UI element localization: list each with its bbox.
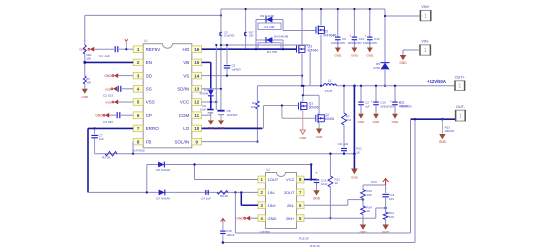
svg-text:1K: 1K (367, 209, 371, 213)
svg-text:GND: GND (334, 54, 342, 58)
svg-text:2IN-: 2IN- (287, 203, 295, 208)
svg-text:10K: 10K (389, 215, 394, 219)
svg-text:10K: 10K (250, 105, 255, 109)
svg-text:IRF640: IRF640 (308, 48, 319, 52)
svg-text:1K: 1K (356, 150, 360, 154)
svg-text:1uF: 1uF (99, 137, 104, 141)
svg-text:REF5V: REF5V (146, 47, 161, 52)
svg-text:U1: U1 (144, 39, 148, 43)
svg-text:U2: U2 (266, 168, 270, 172)
svg-text:OUT-: OUT- (456, 105, 466, 109)
svg-text:ERRO: ERRO (146, 126, 160, 131)
svg-text:R12: R12 (399, 101, 405, 105)
svg-text:FB: FB (146, 139, 152, 144)
svg-text:10K: 10K (249, 34, 254, 38)
svg-text:R4 75R: R4 75R (267, 50, 278, 54)
svg-text:104: 104 (389, 197, 394, 201)
svg-text:C13: C13 (374, 37, 380, 41)
svg-text:10R/2W: 10R/2W (399, 104, 409, 108)
svg-text:GND: GND (392, 120, 400, 124)
svg-text:C4 1uF: C4 1uF (201, 196, 211, 200)
svg-text:VCC: VCC (286, 177, 295, 182)
svg-text:EN: EN (146, 60, 152, 65)
svg-text:GND: GND (358, 120, 366, 124)
svg-text:1000uF/35V: 1000uF/35V (363, 41, 377, 45)
svg-text:C5: C5 (232, 64, 236, 68)
svg-text:R13: R13 (445, 125, 451, 129)
svg-text:10K: 10K (86, 81, 91, 85)
svg-text:10K: 10K (367, 193, 372, 197)
svg-text:C9: C9 (342, 37, 346, 41)
svg-text:14: 14 (194, 73, 200, 78)
svg-text:VSS: VSS (146, 100, 155, 105)
svg-text:D6 N4148: D6 N4148 (260, 14, 274, 18)
svg-text:D4 IN4148: D4 IN4148 (274, 34, 289, 38)
svg-text:10uF: 10uF (321, 182, 328, 186)
svg-text:GND: GND (313, 196, 321, 200)
svg-text:1K2: 1K2 (346, 118, 352, 122)
svg-text:1: 1 (459, 114, 462, 120)
svg-text:VSS: VSS (105, 87, 111, 91)
svg-text:50N06: 50N06 (325, 117, 335, 121)
svg-text:SOL/IN: SOL/IN (175, 139, 190, 144)
svg-text:C8: C8 (227, 109, 231, 113)
svg-text:10: 10 (194, 126, 200, 131)
svg-text:0.1uF/63: 0.1uF/63 (224, 34, 235, 38)
svg-text:D2 N4148: D2 N4148 (156, 168, 170, 172)
svg-text:VSS: VSS (105, 101, 111, 105)
svg-text:VCC: VCC (371, 180, 378, 184)
svg-text:LO: LO (183, 126, 190, 131)
svg-text:10uF/50V: 10uF/50V (227, 114, 238, 117)
svg-text:C11 102: C11 102 (338, 142, 349, 146)
svg-text:C1 .1uF: C1 .1uF (99, 54, 110, 58)
svg-text:GND: GND (81, 95, 89, 99)
svg-text:C6: C6 (202, 104, 206, 108)
svg-text:10K: 10K (86, 57, 91, 61)
svg-text:L1: L1 (328, 79, 332, 83)
svg-text:GND: GND (95, 114, 103, 118)
svg-text:+: + (349, 34, 351, 38)
svg-text:CP: CP (146, 113, 152, 118)
svg-text:10R/2W: 10R/2W (445, 129, 455, 133)
svg-text:KA7500: KA7500 (134, 149, 145, 153)
svg-text:1000uF/35V: 1000uF/35V (331, 41, 345, 45)
svg-text:GND: GND (268, 216, 277, 221)
svg-text:C10: C10 (380, 101, 386, 105)
svg-text:GND: GND (104, 74, 112, 78)
svg-text:1IN+: 1IN+ (268, 203, 277, 208)
svg-text:R1 10R: R1 10R (264, 25, 275, 29)
svg-text:GND: GND (439, 140, 447, 144)
svg-text:OUT+: OUT+ (455, 76, 466, 80)
svg-text:1: 1 (424, 14, 427, 20)
svg-text:VB: VB (183, 60, 189, 65)
svg-text:COM: COM (179, 113, 190, 118)
svg-text:1uF50V: 1uF50V (232, 67, 242, 71)
svg-text:R3 2K: R3 2K (102, 156, 112, 160)
svg-text:15: 15 (194, 60, 200, 65)
svg-text:R15 2K: R15 2K (299, 236, 309, 240)
svg-text:IRF9640: IRF9640 (324, 33, 337, 37)
svg-text:GND: GND (236, 217, 244, 221)
svg-text:1uF: 1uF (365, 104, 370, 108)
svg-text:GND: GND (351, 175, 359, 179)
svg-text:1: 1 (424, 48, 427, 54)
svg-text:1OUT: 1OUT (268, 177, 279, 182)
svg-text:R16 2K: R16 2K (310, 244, 320, 248)
svg-text:1K: 1K (335, 181, 339, 185)
svg-text:12: 12 (194, 100, 200, 105)
svg-text:16: 16 (194, 47, 200, 52)
svg-text:+: + (390, 99, 392, 103)
svg-text:GND: GND (316, 135, 324, 139)
svg-text:+: + (371, 99, 373, 103)
svg-text:VCC: VCC (180, 100, 190, 105)
svg-text:GND: GND (373, 120, 381, 124)
svg-text:GND: GND (207, 126, 215, 130)
svg-text:C2: C2 (365, 101, 369, 105)
svg-text:GND: GND (351, 54, 359, 58)
svg-text:13: 13 (194, 87, 200, 92)
svg-text:2IN+: 2IN+ (286, 216, 295, 221)
svg-text:A760: A760 (373, 66, 380, 70)
svg-text:HO: HO (183, 47, 190, 52)
svg-text:C2 103: C2 103 (103, 93, 113, 97)
svg-text:D7 N4148: D7 N4148 (156, 196, 170, 200)
svg-text:1000uF/35V: 1000uF/35V (348, 41, 362, 45)
svg-text:GND: GND (399, 61, 407, 65)
svg-text:VS: VS (183, 73, 189, 78)
svg-text:50N06: 50N06 (309, 105, 319, 109)
svg-text:SD/IN: SD/IN (177, 87, 189, 92)
svg-text:VIN+: VIN+ (421, 5, 430, 9)
svg-text:100uF: 100uF (226, 233, 234, 237)
svg-text:10uF: 10uF (200, 107, 206, 111)
svg-text:+: + (365, 34, 367, 38)
svg-text:IN4148: IN4148 (200, 92, 209, 96)
svg-text:1IN-: 1IN- (268, 190, 276, 195)
svg-text:GND: GND (366, 54, 374, 58)
svg-text:C3 332: C3 332 (103, 120, 113, 124)
svg-text:GND: GND (299, 136, 307, 140)
svg-text:GND: GND (218, 126, 226, 130)
svg-text:SD: SD (146, 73, 153, 78)
svg-text:+12V/50A: +12V/50A (427, 79, 446, 84)
svg-text:47uH: 47uH (325, 89, 332, 93)
svg-text:11: 11 (194, 113, 199, 118)
svg-text:1: 1 (458, 84, 461, 90)
svg-text:2OUT: 2OUT (284, 190, 295, 195)
svg-text:VIN-: VIN- (421, 40, 429, 44)
svg-text:SS: SS (146, 87, 152, 92)
svg-text:R9 2K: R9 2K (220, 194, 228, 198)
